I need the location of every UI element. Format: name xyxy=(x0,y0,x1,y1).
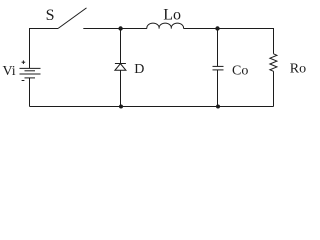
junction dot switch-diode node xyxy=(118,26,122,30)
battery minus sign xyxy=(22,80,25,82)
junction dot diode bottom node xyxy=(119,105,123,109)
svg-text:Lo: Lo xyxy=(163,7,181,24)
diode D triangle xyxy=(115,64,126,71)
diode D cathode bar xyxy=(115,63,126,65)
inductor Lo xyxy=(147,23,184,28)
svg-text:Co: Co xyxy=(232,63,248,78)
resistor Ro zigzag xyxy=(270,54,277,72)
capacitor Co plates xyxy=(213,66,224,70)
wire left column top segment xyxy=(30,29,59,69)
junction dot inductor-capacitor node xyxy=(215,26,219,30)
svg-text:D: D xyxy=(134,62,144,77)
svg-text:Vi: Vi xyxy=(3,64,16,79)
wire right column bottom xyxy=(273,71,275,106)
wire top rail from switch to inductor xyxy=(83,28,147,30)
switch S blade xyxy=(58,8,87,29)
wire diode column top xyxy=(120,29,122,64)
wire diode column bottom xyxy=(120,70,122,106)
battery Vi plates xyxy=(20,68,41,78)
battery plus sign xyxy=(22,60,26,64)
wire capacitor column top xyxy=(217,29,219,67)
svg-text:Ro: Ro xyxy=(290,62,306,77)
wire capacitor column bottom xyxy=(217,70,219,107)
wire top rail from inductor to right corner xyxy=(184,29,274,54)
wire left column bottom segment xyxy=(29,78,31,107)
junction dot capacitor bottom node xyxy=(216,105,220,109)
wire bottom rail xyxy=(30,106,274,108)
svg-text:S: S xyxy=(46,7,55,24)
